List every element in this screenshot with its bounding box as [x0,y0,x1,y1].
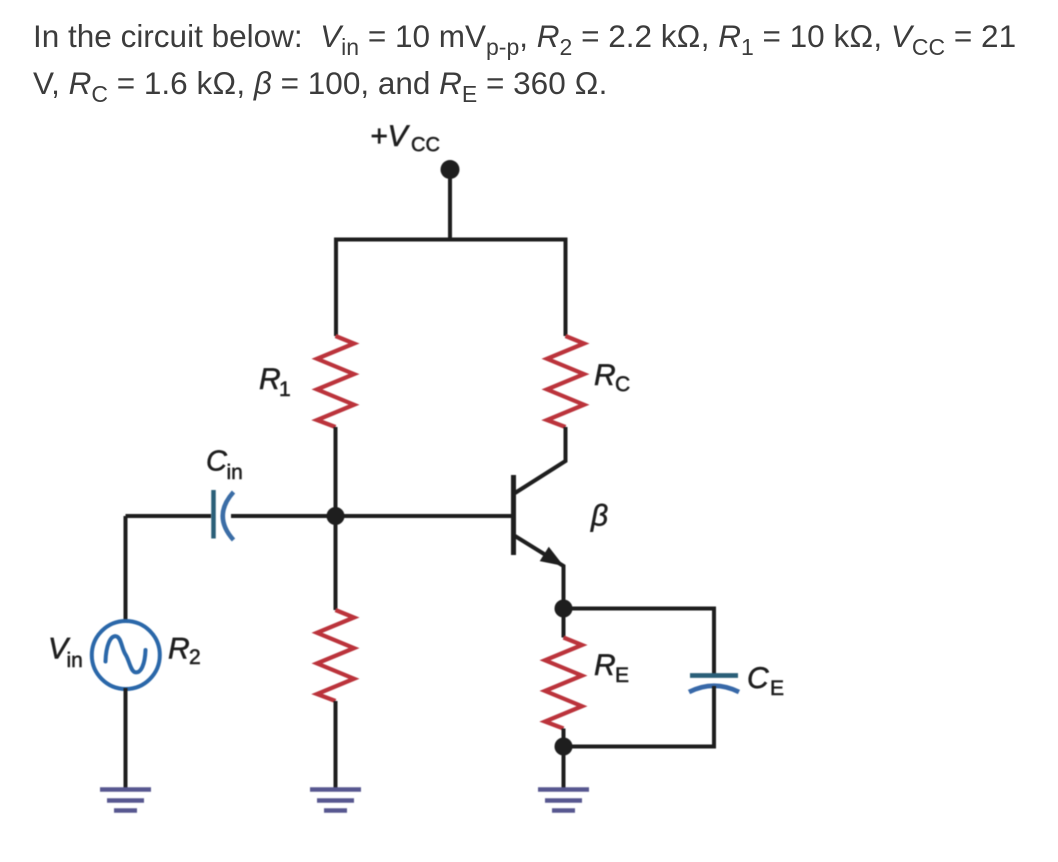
label Rc [594,359,630,396]
svg-text:R: R [594,359,616,392]
transistor Q1 emitter with arrow [515,536,564,608]
resistor Rc [547,336,584,427]
node RE bottom dot [555,738,573,756]
wire RE bottom to ground [562,747,566,790]
wire bias resistor to ground [334,701,338,789]
resistor R2 (bias) [317,610,354,701]
wire CE bottom to RE bottom [564,686,715,747]
wire top rail [336,240,566,337]
wire R1 bottom to base node [334,427,338,516]
ground (emitter) [538,790,589,811]
label R1 [259,363,291,401]
svg-text:in: in [227,461,243,484]
label Vin [48,633,83,673]
label +Vcc [370,120,440,156]
wire source to ground [124,688,128,789]
wire base node to R2 resistor [334,516,338,610]
svg-text:C: C [615,373,630,396]
wire base [126,514,512,518]
svg-text:+V: +V [370,120,411,153]
svg-text:R: R [594,649,616,682]
node Vcc terminal dot [441,160,460,179]
wire collector [515,427,566,493]
node emitter dot [555,600,573,618]
ground (input) [100,790,151,811]
svg-text:CC: CC [411,134,440,156]
transistor Q1 base bar [511,475,516,555]
svg-text:C: C [206,446,228,478]
wire input branch vertical [124,516,128,621]
ground (bias) [310,790,361,811]
label R2 [168,633,201,670]
resistor RE [545,638,582,729]
wire emitter node to RE [562,609,566,638]
svg-text:in: in [67,649,83,672]
svg-text:E: E [770,677,784,700]
wire RE to bottom node [562,729,566,747]
capacitor Cin [214,490,234,540]
svg-text:β: β [590,500,608,533]
node base junction dot [327,507,345,525]
svg-text:1: 1 [279,378,291,401]
svg-text:R: R [168,633,190,666]
svg-text:2: 2 [189,646,201,669]
wire emitter to CE top [564,609,715,678]
capacitor CE [689,676,739,693]
svg-text:C: C [747,662,769,695]
svg-text:E: E [615,664,629,687]
wire Vcc stem [448,170,452,241]
source Vin (AC) [92,621,160,689]
label RE [594,649,629,687]
resistor R1 [317,336,354,427]
svg-text:R: R [259,363,281,396]
label Cin [206,446,243,485]
label CE [747,662,784,700]
